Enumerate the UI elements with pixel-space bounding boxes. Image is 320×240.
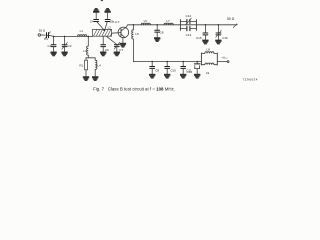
svg-text:C6: C6	[105, 48, 109, 52]
svg-text:C13: C13	[186, 33, 192, 37]
svg-text:C12: C12	[186, 14, 192, 18]
svg-text:C7: C7	[119, 48, 123, 52]
svg-text:50 Ω: 50 Ω	[227, 17, 235, 21]
svg-text:C1: C1	[44, 37, 48, 41]
svg-text:L8: L8	[207, 48, 211, 52]
svg-text:L9: L9	[206, 71, 210, 75]
svg-text:L4: L4	[97, 64, 101, 68]
svg-text:L5: L5	[135, 32, 139, 36]
svg-text:L6: L6	[144, 19, 148, 23]
svg-text:50 Ω: 50 Ω	[39, 29, 46, 33]
svg-text:C3: C3	[68, 44, 72, 48]
svg-text:T.U.T.: T.U.T.	[112, 20, 120, 24]
svg-text:C8: C8	[160, 31, 164, 35]
svg-text:C4: C4	[90, 19, 94, 23]
svg-text:7Z96034: 7Z96034	[243, 78, 258, 82]
svg-text:C14: C14	[186, 70, 192, 74]
svg-text:+VCC: +VCC	[221, 55, 228, 60]
svg-text:Fig. 7 Class B test circuit: Fig. 7 Class B test circuit at f = 108 M…	[93, 87, 175, 92]
svg-text:L2: L2	[108, 25, 112, 29]
svg-text:L7: L7	[166, 19, 170, 23]
svg-text:L1: L1	[80, 29, 84, 33]
svg-text:C15: C15	[196, 36, 202, 40]
svg-text:R1: R1	[79, 64, 83, 68]
svg-text:C9: C9	[155, 69, 159, 73]
svg-text:C10: C10	[170, 69, 176, 73]
svg-text:C2: C2	[48, 44, 52, 48]
svg-text:L3: L3	[83, 49, 87, 53]
svg-text:C16: C16	[222, 36, 228, 40]
